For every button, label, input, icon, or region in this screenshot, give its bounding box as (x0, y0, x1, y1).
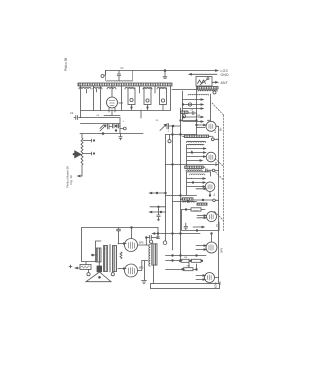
gang dashed link (223, 115, 225, 231)
loop coil (106, 71, 133, 82)
resistor R6 (192, 259, 202, 262)
tap wire (83, 139, 94, 142)
wire (189, 262, 197, 269)
node junction (164, 70, 166, 72)
wire GND (189, 74, 217, 76)
svg-text:B+: B+ (219, 127, 223, 131)
terminal (182, 115, 185, 118)
wire link (166, 164, 219, 166)
driver transformer T2 (96, 241, 102, 262)
IF input box (183, 91, 211, 121)
caption Philco (66, 166, 74, 188)
IF coil (182, 198, 193, 200)
grid arrow (187, 148, 206, 150)
bus wire left (165, 135, 167, 241)
bus wire mid (172, 126, 174, 250)
avc stub 2 (150, 206, 166, 208)
grid arrow (187, 152, 206, 154)
pin circle (188, 103, 191, 106)
svg-text:C1: C1 (121, 67, 125, 70)
B+ bus (218, 140, 220, 284)
output transformer T3 (149, 245, 150, 267)
caption Fig.1 (64, 58, 68, 71)
wire (215, 277, 219, 279)
tuning coil assembly bar (78, 83, 172, 86)
coil box outline (81, 86, 171, 118)
capacitor (146, 235, 151, 239)
coil core (160, 88, 167, 105)
wire arrow end (78, 175, 82, 177)
wire (132, 86, 164, 110)
antenna coil L1 (198, 87, 219, 90)
bus wire right (180, 108, 182, 262)
jack terminal (169, 135, 171, 140)
grid arrow (183, 116, 203, 118)
svg-text:.1: .1 (122, 121, 125, 123)
terminal (213, 91, 216, 94)
svg-text:.25: .25 (155, 120, 159, 122)
svg-text:2M: 2M (197, 115, 200, 117)
wire (131, 228, 133, 239)
gnd (138, 261, 149, 284)
audio loop wire (82, 228, 159, 262)
svg-text:Philco 38: Philco 38 (64, 58, 68, 71)
capacitor (117, 228, 121, 245)
terminal (120, 128, 123, 130)
svg-text:.05: .05 (96, 115, 100, 117)
label GND (221, 73, 230, 77)
resistor R7 (166, 268, 185, 270)
svg-text:6K7: 6K7 (215, 161, 218, 166)
rect tube arrows (196, 275, 205, 277)
grid arrow (183, 121, 203, 123)
coil bumps row (79, 88, 166, 90)
inner coil (190, 174, 205, 175)
wire (209, 192, 211, 196)
tube V6 (206, 242, 217, 253)
svg-text:6A7: 6A7 (119, 101, 124, 105)
det stage box (182, 209, 192, 211)
svg-text:.1: .1 (167, 131, 170, 133)
grid arrow (118, 243, 126, 245)
terminal (212, 169, 215, 172)
terminal (211, 138, 214, 141)
IF stage3 box (187, 172, 211, 195)
junction (92, 254, 94, 256)
gang link (216, 172, 224, 180)
trimmer C5 (160, 124, 166, 130)
svg-text:C2: C2 (70, 111, 74, 115)
capacitor C1 (117, 71, 120, 81)
inner wire (81, 123, 121, 125)
grid arrow (183, 108, 203, 110)
wire ANT (212, 82, 218, 84)
wire stub (163, 71, 167, 79)
label ANT (221, 81, 229, 85)
grid arrow (197, 217, 206, 219)
wire plate (138, 244, 149, 246)
wire (87, 86, 113, 97)
wire (151, 228, 158, 238)
grid arrow (193, 226, 204, 228)
wire (153, 265, 155, 283)
terminal (87, 273, 90, 276)
label LOC (216, 70, 218, 72)
wire link (153, 233, 201, 235)
wire (211, 234, 213, 243)
coil core (144, 88, 151, 105)
bus terminal (163, 241, 167, 245)
tube V1 (107, 97, 118, 108)
trimmer C4 (100, 124, 114, 129)
svg-text:ANT: ANT (221, 81, 229, 85)
grid arrow (196, 245, 206, 247)
tube V8 (125, 239, 138, 252)
coil L2 (181, 111, 189, 114)
wire LOC line (106, 70, 218, 72)
cap on bus (157, 233, 159, 235)
wire grid line (74, 117, 80, 119)
volume control R1 (81, 134, 83, 177)
svg-text:.05: .05 (190, 110, 194, 112)
wire link (166, 255, 207, 257)
wire (181, 120, 197, 122)
grid arrow (187, 186, 205, 188)
value labels (96, 110, 219, 289)
coil bar (197, 203, 207, 205)
capacitor (206, 169, 213, 172)
band switch box (196, 77, 212, 87)
tube V9 (125, 264, 138, 277)
osc coil core (128, 88, 135, 105)
IF stage2 box (187, 145, 205, 168)
svg-text:GND: GND (221, 73, 230, 77)
bottom loop (151, 284, 220, 289)
grid arrow (196, 249, 206, 251)
plate arrow (196, 188, 206, 190)
grid arrow (183, 104, 203, 106)
grid arrow (118, 268, 126, 270)
wire (196, 86, 198, 135)
junction (102, 133, 104, 135)
capacitor (188, 112, 197, 115)
IF coil (185, 166, 204, 169)
svg-text:250M: 250M (193, 211, 199, 213)
grid arrow (183, 99, 203, 101)
avc stub 1 (150, 192, 166, 194)
terminal (149, 240, 152, 243)
wiper arrow (75, 151, 82, 159)
svg-text:6F5: 6F5 (220, 247, 224, 253)
wire link (173, 201, 197, 203)
svg-text:1M: 1M (184, 257, 187, 259)
wire tick (119, 134, 122, 141)
grid arrow (197, 215, 206, 217)
avc stub 3 (150, 211, 166, 213)
tap wire (83, 152, 94, 155)
wire (216, 126, 219, 140)
terminal circle (101, 75, 104, 78)
svg-text:B+: B+ (214, 193, 216, 196)
svg-text:Fig. 10: Fig. 10 (69, 175, 73, 185)
wire link (166, 134, 197, 136)
grid arrow (187, 156, 206, 158)
svg-text:.5M: .5M (186, 266, 190, 268)
cross mark (69, 265, 72, 268)
junction dots (182, 104, 184, 106)
oscillator box (80, 118, 143, 134)
IF transformer T1 (185, 135, 209, 138)
wire link (166, 195, 197, 197)
tube V2 (206, 121, 216, 131)
svg-text:6ZY5: 6ZY5 (215, 282, 218, 288)
resistor (120, 252, 122, 259)
svg-text:6F6: 6F6 (139, 241, 144, 245)
tube V7 (205, 273, 215, 283)
tube V5 (207, 212, 217, 222)
grid arrow (187, 178, 205, 180)
grid arrow (187, 160, 202, 162)
capacitor C2 (76, 116, 78, 120)
svg-text:B+: B+ (215, 130, 217, 133)
trimmer C3 (100, 125, 106, 131)
wire (172, 89, 198, 91)
tone pot (80, 265, 91, 270)
speaker (97, 266, 102, 272)
grid arrow (187, 182, 205, 184)
cap (184, 223, 188, 230)
wire (104, 110, 141, 118)
tube V3 (206, 152, 216, 162)
tube V4 (205, 182, 215, 192)
resistor R5 (166, 260, 182, 262)
